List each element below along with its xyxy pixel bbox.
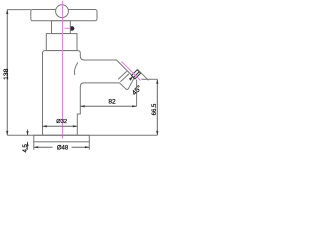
dimension 82 arrow left xyxy=(80,105,84,107)
svg-text:4.5: 4.5 xyxy=(23,143,29,152)
aerator body xyxy=(132,70,141,79)
index button xyxy=(71,26,75,30)
dimension 4.5 upper arrow line xyxy=(27,130,29,136)
body with spout xyxy=(43,51,134,136)
inner arc at spout root xyxy=(74,63,77,75)
dimension O48 line right segment xyxy=(72,146,90,148)
aerator inner stroke xyxy=(134,72,139,77)
dimension O48 arrow left xyxy=(34,146,38,148)
dimension 66.5 arrow top xyxy=(156,79,158,83)
svg-text:Ø32: Ø32 xyxy=(56,119,67,125)
extension line from spout tip down xyxy=(136,80,138,107)
extension line right top (spout outlet level) xyxy=(142,78,158,80)
handle bar xyxy=(31,10,97,21)
angular dim extension diagonal xyxy=(138,69,149,80)
centerline dash at button xyxy=(65,27,75,29)
spout axis centerline diagonal xyxy=(122,62,141,81)
flange xyxy=(34,135,90,142)
angular dim arrowhead at face xyxy=(129,76,134,81)
svg-text:82: 82 xyxy=(108,98,116,105)
svg-text:66.5: 66.5 xyxy=(152,103,158,115)
extension line top (handle top level) xyxy=(7,9,31,11)
dimension 4.5 upper arrow xyxy=(26,131,28,135)
dimension 4.5 lower arrow xyxy=(26,142,28,146)
svg-text:Ø48: Ø48 xyxy=(57,146,69,152)
dimension O32 arrow left xyxy=(43,125,47,127)
handle front arm circle xyxy=(56,5,69,18)
spout face inner ring lines xyxy=(118,71,127,79)
dimension 82 line xyxy=(80,105,136,107)
svg-text:138: 138 xyxy=(3,68,10,80)
dimension 138 arrow bottom xyxy=(6,131,8,135)
dimension O32 arrow right xyxy=(73,125,77,127)
dimension 66.5 line xyxy=(156,79,158,135)
bottom reference line (flange top extended) xyxy=(7,134,157,136)
dimension O48 arrow right xyxy=(85,146,89,148)
dimension 138 arrow top xyxy=(6,10,8,14)
dimension 138 line xyxy=(6,10,8,136)
dimension O32 line xyxy=(43,125,78,127)
dimension 82 arrow right xyxy=(132,105,136,107)
dimension 4.5 lower arrow line xyxy=(27,142,29,150)
neck xyxy=(52,21,71,34)
flange extension line down left xyxy=(33,142,35,150)
flange extension line down right xyxy=(88,142,90,150)
centerline vertical (tap axis) xyxy=(61,1,63,139)
dimension O48 line left segment xyxy=(34,146,53,148)
dimension 66.5 arrow bottom xyxy=(156,131,158,135)
bonnet xyxy=(46,34,77,51)
